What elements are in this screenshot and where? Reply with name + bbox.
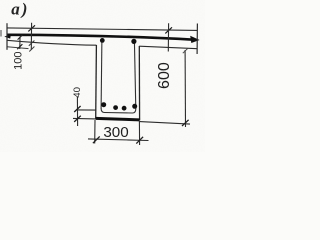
dim 40 vertical line: [76, 97, 78, 127]
edge smudge left: [0, 30, 2, 37]
arrowhead left of thick line: [4, 34, 11, 39]
tick on top line at x=168.5: [165, 27, 172, 33]
bottom rebar dot 3: [122, 106, 127, 111]
tick 300 right: [136, 137, 143, 144]
arrowhead right of thick line: [190, 36, 199, 43]
slab thick line (mesh): [7, 35, 196, 40]
right slab cut vertical: [196, 24, 198, 55]
paper noise overlay: [0, 0, 1, 1]
stirrup right line: [134, 41, 135, 110]
dim 100 vertical line: [19, 37, 21, 49]
wire: slab top dimension line: [7, 28, 198, 31]
extension vertical x=168.5: [167, 23, 169, 51]
rebar level extension line: [77, 109, 96, 111]
bottom rebar dot 2: [113, 105, 118, 110]
beam bottom left extension: [73, 117, 96, 120]
slab bottom line left segment: [7, 40, 96, 45]
slab bottom line right segment: [139, 46, 197, 49]
extension below web left: [94, 120, 96, 144]
dim 300 line: [88, 139, 149, 141]
T-beam cross-section schematic (scanned drawing): [0, 0, 205, 152]
tick 600 bottom: [182, 120, 189, 126]
bottom rebar dot 4: [132, 104, 137, 109]
dim 600 vertical line: [184, 50, 186, 127]
tick at end of short line: [29, 47, 34, 52]
web outer left line: [95, 45, 98, 119]
stirrup bottom: [101, 109, 136, 114]
extension vertical x=31.5: [30, 23, 32, 50]
tick 600 top: [183, 48, 188, 53]
tick 100 bottom: [17, 44, 22, 49]
extension below web right: [138, 121, 140, 145]
beam bottom right extension: [140, 122, 190, 125]
short lower line at left: [7, 47, 29, 49]
stirrup top-right rebar dot: [131, 39, 136, 44]
tick 40 top: [74, 106, 80, 112]
bottom rebar dot 1: [101, 102, 106, 107]
tick 300 left: [93, 136, 100, 143]
tick on top line at x=31.5: [28, 25, 35, 31]
tick 40 bottom: [74, 116, 81, 122]
left slab cut vertical: [6, 23, 8, 50]
stirrup left line: [100, 40, 103, 110]
web outer right line: [138, 46, 140, 120]
beam bottom thick: [96, 118, 140, 120]
tick at x=31.5 on slab bottom: [29, 41, 35, 46]
tick 100 top: [18, 35, 23, 40]
stirrup top-left rebar dot: [100, 38, 105, 43]
